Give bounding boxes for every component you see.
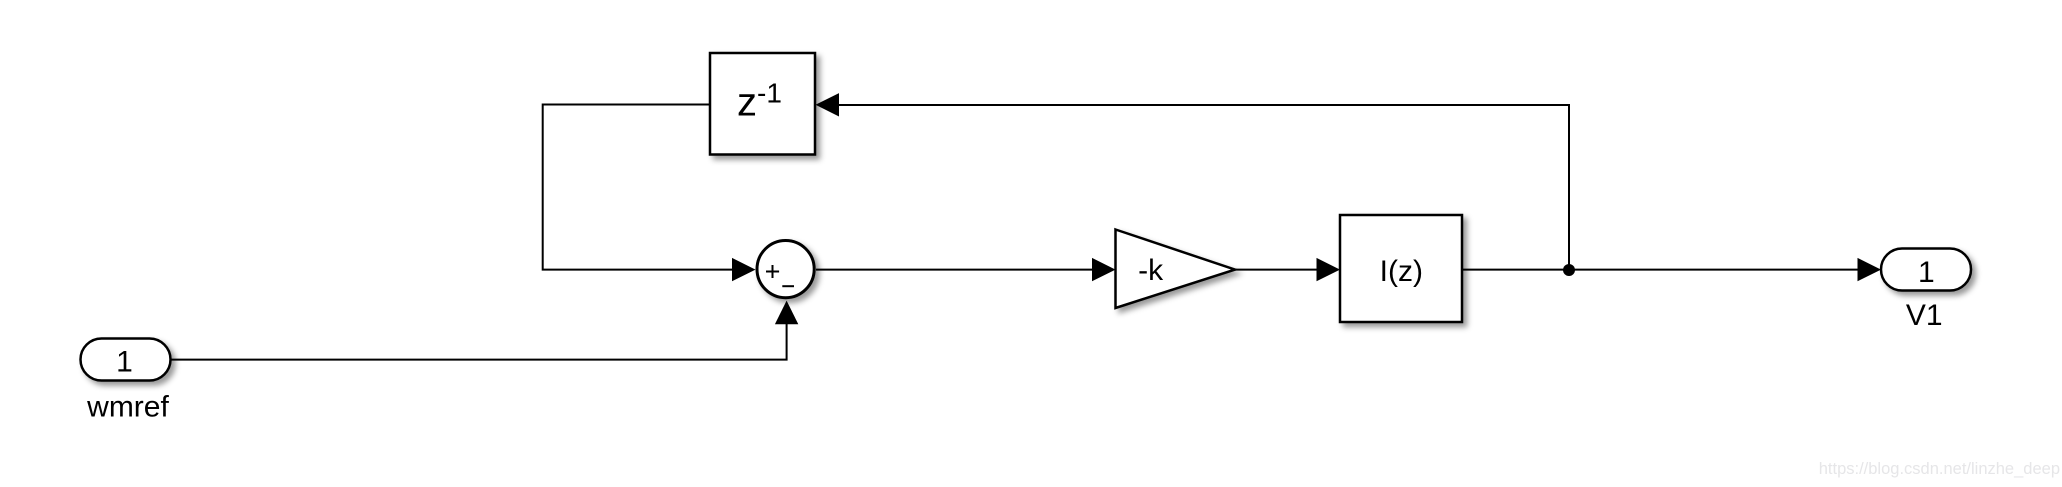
svg-text:V1: V1 bbox=[1906, 299, 1943, 332]
svg-text:wmref: wmref bbox=[86, 390, 169, 423]
svg-text:-k: -k bbox=[1138, 254, 1164, 287]
svg-text:1: 1 bbox=[116, 346, 133, 379]
svg-text:I(z): I(z) bbox=[1380, 255, 1423, 288]
svg-text:https://blog.csdn.net/linzhe_d: https://blog.csdn.net/linzhe_deep bbox=[1819, 460, 2060, 478]
svg-text:1: 1 bbox=[1918, 256, 1935, 289]
